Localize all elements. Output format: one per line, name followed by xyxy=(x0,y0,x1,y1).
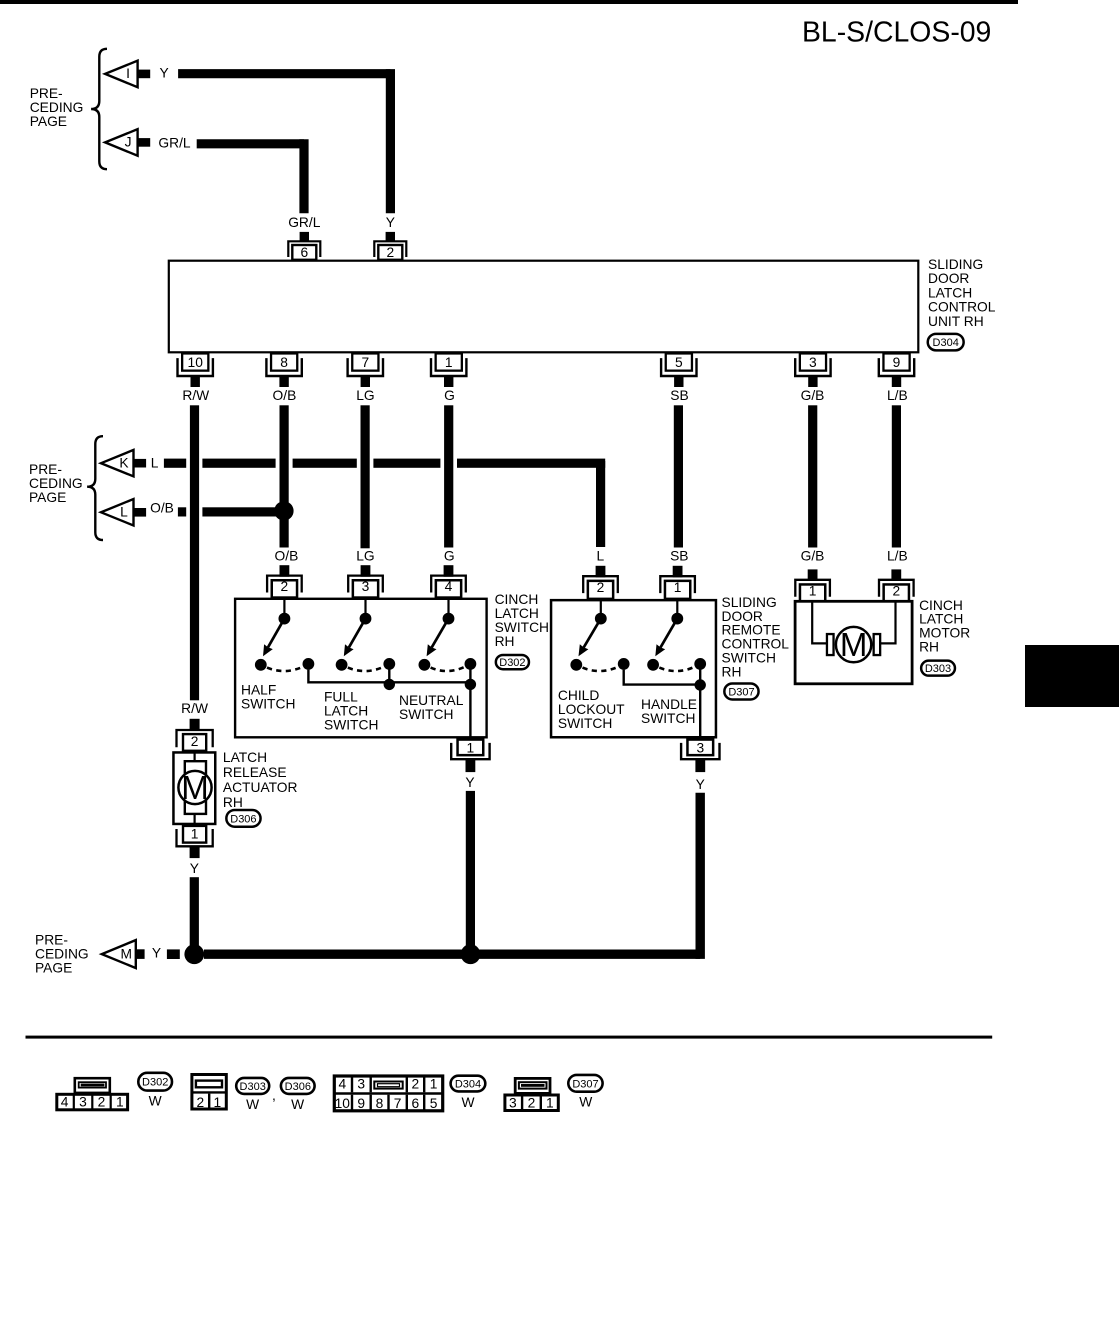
svg-text:10: 10 xyxy=(188,355,204,370)
wire G vertical (pin 1 to cinch latch switch) xyxy=(444,405,453,547)
wire label Y (below remote pin 3) xyxy=(696,777,705,792)
wire label Y (arrow M) xyxy=(152,945,161,960)
svg-text:PAGE: PAGE xyxy=(30,114,67,129)
svg-text:1: 1 xyxy=(191,826,199,841)
svg-text:2: 2 xyxy=(412,1077,420,1092)
svg-text:,: , xyxy=(272,1088,276,1103)
svg-text:SLIDING: SLIDING xyxy=(928,257,983,272)
unit pin 7 xyxy=(348,353,383,387)
svg-text:PAGE: PAGE xyxy=(35,961,72,976)
svg-text:D307: D307 xyxy=(572,1078,598,1090)
latch release actuator RH body xyxy=(173,752,215,825)
svg-text:RH: RH xyxy=(223,795,243,810)
label CINCH LATCH MOTOR RH xyxy=(919,598,970,655)
title BL-S/CLOS-09 xyxy=(802,17,991,49)
label W (D306) xyxy=(291,1097,304,1112)
svg-text:SWITCH: SWITCH xyxy=(324,718,378,733)
svg-text:2: 2 xyxy=(386,245,394,260)
svg-text:GR/L: GR/L xyxy=(288,215,321,230)
label PRECEDING PAGE (bottom) xyxy=(35,933,89,976)
label W (D303) xyxy=(246,1097,259,1112)
svg-text:LATCH: LATCH xyxy=(495,606,539,621)
cinch latch motor pin 1 xyxy=(795,569,830,601)
svg-text:LG: LG xyxy=(356,549,374,564)
svg-text:M: M xyxy=(121,946,133,961)
svg-text:Y: Y xyxy=(386,215,395,230)
connector code D304 xyxy=(928,334,964,351)
wire LG vertical (pin 7 to cinch latch switch) xyxy=(361,405,370,548)
svg-text:3: 3 xyxy=(79,1095,87,1110)
junction dot (full latch to bus) xyxy=(384,679,395,690)
svg-text:8: 8 xyxy=(280,355,288,370)
svg-text:Y: Y xyxy=(696,777,705,792)
svg-text:Y: Y xyxy=(152,945,161,960)
wire O/B vertical (pin 8 to cinch latch switch) xyxy=(280,405,289,547)
wire G/B vertical (pin 3 to cinch latch motor) xyxy=(808,405,817,547)
svg-text:L: L xyxy=(120,505,128,520)
svg-text:RH: RH xyxy=(495,634,515,649)
svg-text:W: W xyxy=(149,1094,162,1109)
svg-text:LATCH: LATCH xyxy=(223,750,267,765)
svg-text:D306: D306 xyxy=(285,1081,311,1093)
svg-text:SWITCH: SWITCH xyxy=(241,697,295,712)
connector code D307 xyxy=(724,683,758,699)
svg-text:DOOR: DOOR xyxy=(928,271,969,286)
svg-text:K: K xyxy=(119,456,129,471)
svg-text:D302: D302 xyxy=(499,657,525,669)
svg-text:D304: D304 xyxy=(455,1079,481,1091)
handle switch xyxy=(647,599,706,672)
svg-text:R/W: R/W xyxy=(182,388,209,403)
svg-text:SB: SB xyxy=(670,549,688,564)
comma separator xyxy=(272,1088,276,1103)
wire label R/W (below pin 10) xyxy=(182,388,209,403)
cinch latch motor RH box xyxy=(795,601,912,684)
svg-text:REMOTE: REMOTE xyxy=(722,623,781,638)
svg-text:W: W xyxy=(461,1095,474,1110)
svg-text:ACTUATOR: ACTUATOR xyxy=(223,780,298,795)
svg-text:BL-S/CLOS-09: BL-S/CLOS-09 xyxy=(802,17,991,49)
svg-text:D307: D307 xyxy=(728,687,754,699)
unit pin 5 xyxy=(661,353,696,387)
label W (D304) xyxy=(461,1095,474,1110)
svg-text:3: 3 xyxy=(696,740,704,755)
svg-text:W: W xyxy=(246,1097,259,1112)
label W (D307) xyxy=(579,1095,592,1110)
connector view D303/D306 (2-pin) xyxy=(192,1075,226,1110)
svg-text:1: 1 xyxy=(674,580,682,595)
latch release actuator pin 2 xyxy=(177,719,213,751)
svg-text:8: 8 xyxy=(376,1096,384,1111)
footer separator line xyxy=(26,1036,993,1039)
svg-text:MOTOR: MOTOR xyxy=(919,625,970,640)
svg-text:HANDLE: HANDLE xyxy=(641,697,697,712)
label CHILD LOCKOUT SWITCH xyxy=(558,688,625,731)
wire label GR/L above pin 6 xyxy=(288,215,321,230)
unit pin 1 xyxy=(431,353,466,387)
cinch latch motor pin 2 xyxy=(879,569,914,601)
svg-text:4: 4 xyxy=(338,1077,346,1092)
connector arrow M xyxy=(102,940,145,968)
junction dot O/B xyxy=(274,501,293,520)
label CINCH LATCH SWITCH RH xyxy=(495,592,549,649)
svg-text:CHILD: CHILD xyxy=(558,688,599,703)
connector arrow J xyxy=(105,129,150,156)
svg-text:G: G xyxy=(444,388,455,403)
wire label R/W (above actuator pin 2) xyxy=(181,701,208,716)
connector code D303 (footer) xyxy=(236,1078,269,1094)
svg-text:9: 9 xyxy=(357,1096,365,1111)
wire SB vertical (pin 5 to remote control switch) xyxy=(674,405,683,547)
wire label Y (arrow I) xyxy=(160,66,169,81)
svg-text:RH: RH xyxy=(722,664,742,679)
svg-text:D303: D303 xyxy=(240,1081,266,1093)
page edge index tab xyxy=(1025,645,1119,707)
wire Y bottom bus (arrow M to remote pin 3) xyxy=(167,793,700,959)
svg-text:Y: Y xyxy=(465,775,474,790)
junction dot (neutral to pin 1) xyxy=(465,679,476,690)
wire label SB (below pin 5) xyxy=(670,388,688,403)
unit pin 8 xyxy=(266,353,301,387)
cinch latch switch pin 4 xyxy=(431,565,466,597)
wire label G/B (above motor pin 1) xyxy=(801,549,825,564)
svg-text:D304: D304 xyxy=(933,337,959,349)
svg-text:2: 2 xyxy=(196,1095,204,1110)
svg-text:LOCKOUT: LOCKOUT xyxy=(558,702,625,717)
unit pin 9 xyxy=(879,353,914,387)
connector view D304 (10-pin) xyxy=(334,1076,442,1111)
wire label Y (below cinch pin 1) xyxy=(465,775,474,790)
svg-text:D303: D303 xyxy=(925,663,951,675)
svg-text:RELEASE: RELEASE xyxy=(223,765,287,780)
svg-text:3: 3 xyxy=(809,355,817,370)
svg-text:LATCH: LATCH xyxy=(928,285,972,300)
svg-text:G: G xyxy=(444,549,455,564)
svg-text:PAGE: PAGE xyxy=(29,490,66,505)
wire GR/L from arrow J to unit pin 6 xyxy=(197,139,304,213)
label SLIDING DOOR LATCH CONTROL UNIT RH xyxy=(928,257,996,329)
svg-text:1: 1 xyxy=(467,740,475,755)
svg-text:2: 2 xyxy=(892,583,900,598)
wire L/B vertical (pin 9 to cinch latch motor) xyxy=(892,405,901,547)
svg-text:5: 5 xyxy=(430,1096,438,1111)
svg-text:3: 3 xyxy=(509,1095,517,1110)
unit pin 6 xyxy=(288,232,320,260)
cinch latch switch pin 2 xyxy=(267,565,302,597)
label PRECEDING PAGE (top) xyxy=(30,86,84,129)
svg-text:6: 6 xyxy=(300,245,308,260)
wire R/W vertical (pin 10 to latch release actuator) xyxy=(190,405,199,700)
svg-text:HALF: HALF xyxy=(241,683,276,698)
connector arrow K xyxy=(101,450,146,477)
svg-text:1: 1 xyxy=(809,583,817,598)
label HANDLE SWITCH xyxy=(641,697,697,726)
wire label O/B (below pin 8) xyxy=(273,388,297,403)
svg-text:CINCH: CINCH xyxy=(495,592,539,607)
svg-text:I: I xyxy=(126,66,130,81)
wire O/B horizontal (arrow L to junction) xyxy=(178,507,276,516)
svg-text:PRE-: PRE- xyxy=(30,86,63,101)
svg-text:1: 1 xyxy=(214,1095,222,1110)
svg-text:7: 7 xyxy=(394,1096,402,1111)
wire label O/B (above cinch pin 2) xyxy=(275,549,299,564)
connector arrow I xyxy=(105,61,150,87)
svg-text:2: 2 xyxy=(191,734,199,749)
svg-text:UNIT RH: UNIT RH xyxy=(928,314,984,329)
svg-text:SWITCH: SWITCH xyxy=(495,620,549,635)
svg-text:Y: Y xyxy=(190,861,199,876)
remote switch internal wire to pin 3 xyxy=(624,669,701,739)
svg-text:R/W: R/W xyxy=(181,701,208,716)
cinch latch switch pin 1 xyxy=(451,740,489,773)
svg-text:2: 2 xyxy=(597,580,605,595)
svg-text:1: 1 xyxy=(546,1095,554,1110)
label PRECEDING PAGE (middle) xyxy=(29,462,83,505)
svg-text:SLIDING: SLIDING xyxy=(722,595,777,610)
svg-text:Y: Y xyxy=(160,66,169,81)
svg-text:CEDING: CEDING xyxy=(30,100,84,115)
svg-text:2: 2 xyxy=(281,579,289,594)
svg-text:4: 4 xyxy=(61,1095,69,1110)
wire label Y (below actuator pin 1) xyxy=(190,861,199,876)
svg-text:PRE-: PRE- xyxy=(35,933,68,948)
svg-text:FULL: FULL xyxy=(324,690,358,705)
label NEUTRAL SWITCH xyxy=(399,693,464,722)
cinch latch switch RH box xyxy=(235,599,487,738)
cinch latch switch internal wire to pin 1 xyxy=(308,669,470,739)
svg-text:9: 9 xyxy=(893,355,901,370)
wire label L/B (above motor pin 2) xyxy=(887,549,908,564)
full latch switch xyxy=(336,599,395,672)
connector code D306 (footer) xyxy=(281,1078,315,1094)
remote control switch pin 1 xyxy=(660,566,695,599)
label HALF SWITCH xyxy=(241,683,295,712)
svg-text:2: 2 xyxy=(98,1095,106,1110)
preceding page brace (middle) xyxy=(87,436,103,540)
svg-text:L/B: L/B xyxy=(887,388,908,403)
svg-text:7: 7 xyxy=(361,355,369,370)
svg-text:CONTROL: CONTROL xyxy=(722,637,790,652)
svg-text:D302: D302 xyxy=(142,1077,168,1089)
page top border bar xyxy=(0,0,1018,4)
svg-text:CONTROL: CONTROL xyxy=(928,300,996,315)
cinch latch switch pin 3 xyxy=(348,565,383,597)
wire label L/B (below pin 9) xyxy=(887,388,908,403)
wire label G (above cinch pin 4) xyxy=(444,549,455,564)
svg-text:L/B: L/B xyxy=(887,549,908,564)
svg-text:M: M xyxy=(840,626,868,663)
svg-text:O/B: O/B xyxy=(275,549,299,564)
remote control switch pin 3 xyxy=(681,740,719,773)
sliding door latch control unit RH box xyxy=(169,261,919,353)
svg-text:SB: SB xyxy=(670,388,688,403)
junction dot (child lockout to pin 3) xyxy=(695,679,706,690)
svg-text:3: 3 xyxy=(362,579,370,594)
svg-text:G/B: G/B xyxy=(801,388,825,403)
svg-text:6: 6 xyxy=(412,1096,420,1111)
svg-text:SWITCH: SWITCH xyxy=(399,707,453,722)
svg-text:GR/L: GR/L xyxy=(158,135,191,150)
unit pin 2 xyxy=(374,232,406,260)
svg-text:D306: D306 xyxy=(230,813,256,825)
svg-text:O/B: O/B xyxy=(273,388,297,403)
svg-text:SWITCH: SWITCH xyxy=(558,716,612,731)
neutral switch xyxy=(419,599,477,672)
svg-text:L: L xyxy=(151,455,159,470)
connector code D303 xyxy=(921,661,955,676)
svg-text:PRE-: PRE- xyxy=(29,462,62,477)
half switch xyxy=(255,599,314,672)
svg-text:G/B: G/B xyxy=(801,549,825,564)
wire label SB (above remote pin 1) xyxy=(670,549,688,564)
svg-text:5: 5 xyxy=(675,355,683,370)
svg-text:L: L xyxy=(597,549,605,564)
connector code D302 xyxy=(496,655,529,669)
svg-text:LG: LG xyxy=(356,388,374,403)
svg-text:O/B: O/B xyxy=(150,501,174,516)
wire Y from arrow I to unit pin 2 xyxy=(178,69,390,213)
connector code D307 (footer) xyxy=(568,1075,602,1092)
sliding door remote control switch RH box xyxy=(551,600,716,737)
connector view D302 (4-pin) xyxy=(57,1078,128,1110)
wire label LG (above cinch pin 3) xyxy=(356,549,374,564)
svg-text:1: 1 xyxy=(430,1077,438,1092)
svg-text:SWITCH: SWITCH xyxy=(722,651,776,666)
connector arrow L xyxy=(101,499,146,526)
svg-text:4: 4 xyxy=(445,579,453,594)
wire label O/B (arrow L) xyxy=(150,501,174,516)
svg-text:LATCH: LATCH xyxy=(324,704,368,719)
svg-text:1: 1 xyxy=(445,355,453,370)
wire label L (above remote pin 2) xyxy=(597,549,605,564)
connector code D302 (footer) xyxy=(138,1073,172,1091)
wire label G/B (below pin 3) xyxy=(801,388,825,403)
svg-text:NEUTRAL: NEUTRAL xyxy=(399,693,464,708)
label W (D302) xyxy=(149,1094,162,1109)
latch release actuator pin 1 xyxy=(177,826,213,858)
svg-text:CEDING: CEDING xyxy=(29,476,83,491)
svg-text:SWITCH: SWITCH xyxy=(641,711,695,726)
svg-text:DOOR: DOOR xyxy=(722,609,763,624)
junction dot (actuator Y to bus) xyxy=(184,944,204,964)
svg-text:CEDING: CEDING xyxy=(35,947,89,962)
remote control switch pin 2 xyxy=(583,566,618,599)
wire label Y above pin 2 xyxy=(386,215,395,230)
wire label L (arrow K) xyxy=(151,455,159,470)
label LATCH RELEASE ACTUATOR RH xyxy=(223,750,298,810)
svg-text:3: 3 xyxy=(357,1077,365,1092)
unit pin 3 xyxy=(795,353,830,387)
label FULL LATCH SWITCH xyxy=(324,690,378,733)
wire label G (below pin 1) xyxy=(444,388,455,403)
unit pin 10 xyxy=(178,353,213,387)
svg-text:2: 2 xyxy=(528,1095,536,1110)
cinch latch motor M symbol xyxy=(812,602,895,663)
svg-text:W: W xyxy=(579,1095,592,1110)
svg-text:M: M xyxy=(181,769,209,806)
wire label GR/L (arrow J) xyxy=(158,135,191,150)
child lockout switch xyxy=(570,599,629,672)
wire Y from actuator to bottom bus xyxy=(190,877,199,950)
svg-text:1: 1 xyxy=(116,1095,124,1110)
label SLIDING DOOR REMOTE CONTROL SWITCH RH xyxy=(722,595,790,680)
connector view D307 (3-pin) xyxy=(505,1078,558,1110)
svg-text:RH: RH xyxy=(919,640,939,655)
wire Y from cinch pin 1 to bottom bus xyxy=(466,791,475,950)
svg-text:10: 10 xyxy=(335,1096,351,1111)
connector code D304 (footer) xyxy=(451,1076,486,1092)
preceding page brace (top) xyxy=(91,49,107,169)
svg-text:J: J xyxy=(125,135,132,150)
svg-text:W: W xyxy=(291,1097,304,1112)
junction dot (cinch Y to bus) xyxy=(461,944,481,964)
connector code D306 xyxy=(226,810,260,827)
wire L horizontal (arrow K to remote control switch pin 2) xyxy=(164,459,605,547)
wire label LG (below pin 7) xyxy=(356,388,374,403)
